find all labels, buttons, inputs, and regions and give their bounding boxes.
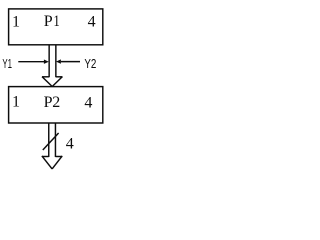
svg-text:Y1: Y1 xyxy=(2,56,12,71)
svg-text:4: 4 xyxy=(66,135,74,152)
svg-text:Y2: Y2 xyxy=(84,56,96,71)
svg-text:1: 1 xyxy=(53,13,59,30)
svg-text:1: 1 xyxy=(12,13,20,30)
svg-text:P: P xyxy=(44,94,53,111)
svg-text:1: 1 xyxy=(12,94,20,111)
svg-text:4: 4 xyxy=(84,94,92,111)
svg-text:2: 2 xyxy=(52,94,60,111)
svg-text:4: 4 xyxy=(88,14,96,31)
svg-text:P: P xyxy=(44,13,53,30)
